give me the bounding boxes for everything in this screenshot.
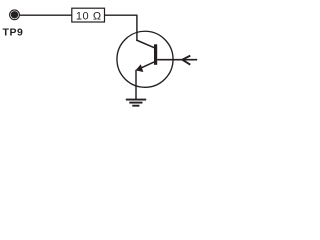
- transistor body circle: [117, 31, 173, 87]
- wire resistor to collector (horizontal): [105, 14, 137, 16]
- transistor Q1: [117, 31, 173, 87]
- resistor R (10 ohm): [72, 8, 105, 22]
- base input arrow: [182, 56, 190, 65]
- test point TP9: [10, 10, 20, 20]
- base wire: [157, 59, 197, 61]
- svg-text:10 Ω: 10 Ω: [76, 11, 102, 23]
- ground: [126, 100, 146, 106]
- emitter wire (vertical to ground): [135, 70, 137, 100]
- svg-text:TP9: TP9: [3, 27, 24, 39]
- emitter slant: [137, 62, 155, 70]
- wire TP9 to resistor: [19, 14, 71, 16]
- collector slant: [136, 40, 154, 48]
- emitter arrowhead: [136, 64, 144, 72]
- base bar: [154, 44, 157, 65]
- wire collector (vertical): [136, 15, 138, 41]
